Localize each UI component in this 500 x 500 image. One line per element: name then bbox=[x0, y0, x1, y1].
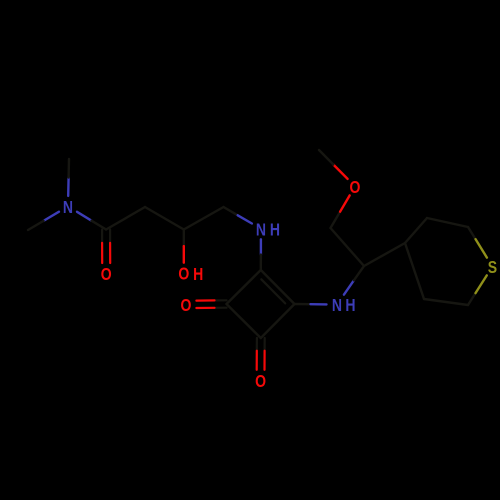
bond NH-CH (half) bbox=[354, 266, 364, 280]
C2=O right line bbox=[264, 338, 266, 351]
bond CH-CH2 bbox=[331, 228, 365, 266]
ring bond C2-C4 bbox=[261, 304, 295, 338]
ring double bond C3=C4 inner bbox=[261, 279, 285, 303]
bond N-CH3 (left methyl) (half) bbox=[28, 221, 44, 230]
bond N-C carbonyl bbox=[77, 212, 92, 221]
C1=O top line (half) bbox=[196, 299, 214, 301]
svg-text:O: O bbox=[101, 264, 112, 284]
C1=O bottom line (half) bbox=[196, 307, 214, 309]
C2=O left line bbox=[256, 338, 258, 351]
svg-text:O: O bbox=[255, 371, 266, 391]
bond C-OH (half) bbox=[183, 246, 185, 263]
svg-text:H: H bbox=[270, 220, 280, 240]
thiane ring bond bbox=[424, 299, 468, 305]
svg-text:S: S bbox=[488, 257, 498, 277]
svg-text:N: N bbox=[332, 295, 342, 315]
ring bond C1-C2 bbox=[227, 304, 261, 338]
thiane bond C-S upper (half) bbox=[476, 239, 487, 257]
bond O-CH3 ether bbox=[333, 165, 347, 179]
C2=O left line (half) bbox=[256, 351, 258, 370]
svg-text:O: O bbox=[180, 295, 191, 315]
bond CH2-NH bbox=[224, 207, 238, 215]
thiane ring bond bbox=[405, 218, 427, 243]
C=O amide right line (half) bbox=[109, 243, 111, 263]
bond N-C carbonyl (half) bbox=[92, 221, 107, 230]
bond C(=O)-CH2 bbox=[106, 207, 145, 230]
bond NH-C3 ring (half) bbox=[260, 255, 263, 270]
bond CH-thiane C4' bbox=[364, 243, 405, 266]
thiane ring bond bbox=[427, 218, 468, 227]
ring double bond C3=C4 main bbox=[261, 270, 295, 304]
bond CH2-O ether bbox=[331, 212, 341, 228]
bond C4-NH bbox=[295, 303, 311, 306]
ring bond C3-C1 bbox=[227, 270, 261, 304]
bond C-OH bbox=[183, 230, 185, 247]
thiane bond C-S lower (half) bbox=[476, 275, 487, 293]
bond C4-NH (half) bbox=[311, 303, 327, 306]
C=O amide left line bbox=[101, 230, 103, 243]
bond NH-CH bbox=[344, 280, 354, 294]
bond O-CH3 ether (half) bbox=[319, 150, 333, 165]
bond CH2-O ether (half) bbox=[340, 195, 350, 211]
svg-text:H: H bbox=[193, 264, 203, 284]
thiane bond C-S upper bbox=[468, 227, 476, 239]
thiane bond C-S lower bbox=[468, 293, 476, 305]
C=O amide right line bbox=[109, 230, 111, 243]
svg-text:N: N bbox=[63, 197, 73, 217]
thiane ring bond bbox=[405, 243, 424, 299]
C=O amide left line (half) bbox=[101, 243, 103, 263]
bond NH-C3 ring bbox=[260, 239, 262, 254]
C2=O right line (half) bbox=[263, 351, 265, 370]
bond N-CH3 (left methyl) bbox=[44, 212, 60, 221]
bond CH(OH)-CH2 bbox=[184, 207, 224, 230]
bond CH2-CH(OH) bbox=[145, 207, 184, 230]
svg-text:N: N bbox=[256, 220, 266, 240]
C1=O bottom line bbox=[215, 307, 227, 309]
bond N-CH3 (top methyl) bbox=[67, 178, 70, 196]
bond CH2-NH (half) bbox=[238, 215, 252, 223]
C1=O top line bbox=[215, 299, 227, 301]
svg-text:O: O bbox=[350, 177, 361, 197]
svg-text:O: O bbox=[178, 264, 189, 284]
bond N-CH3 (top methyl) (half) bbox=[67, 159, 70, 178]
svg-text:H: H bbox=[345, 295, 355, 315]
